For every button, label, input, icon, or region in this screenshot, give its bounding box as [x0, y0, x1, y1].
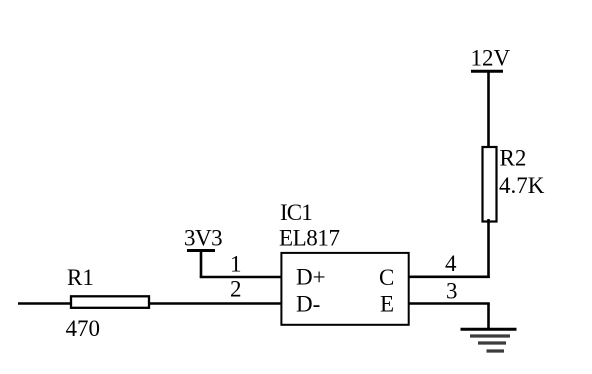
svg-text:C: C: [379, 265, 394, 290]
op-amp U1: optocoupler IC1 box: [281, 253, 408, 325]
wire: 3V3 to IC1 pin 1 (D+): [200, 276, 282, 279]
pin label D-: [296, 292, 320, 317]
pin 2 label: [230, 277, 242, 302]
wire: IC1 pin 4 (C) to R2 node: [409, 275, 490, 278]
wire: R2 down to pin 4 node: [487, 219, 490, 278]
wire: pin 3 node down to ground: [487, 304, 490, 331]
svg-text:EL817: EL817: [279, 226, 340, 251]
svg-text:IC1: IC1: [280, 200, 312, 225]
label R1: [67, 265, 94, 290]
power 12V supply bar: [471, 70, 503, 73]
svg-text:D-: D-: [296, 292, 320, 317]
pin 4 label: [445, 251, 457, 276]
label R2: [500, 146, 527, 171]
svg-text:D+: D+: [296, 265, 326, 290]
value 4.7K: [499, 173, 545, 198]
label EL817: [279, 226, 340, 251]
wire: IC1 pin 3 (E) to ground: [409, 302, 490, 305]
pin label E: [380, 292, 394, 317]
svg-text:12V: 12V: [471, 46, 511, 71]
svg-text:R2: R2: [500, 146, 527, 171]
pin 1 label: [230, 252, 242, 277]
resistor R2: [483, 147, 497, 222]
svg-text:2: 2: [230, 277, 242, 302]
wire: left lead into R1: [18, 302, 72, 305]
svg-text:1: 1: [230, 252, 242, 277]
svg-text:4.7K: 4.7K: [499, 173, 545, 198]
resistor R1: [71, 296, 149, 308]
power 3V3 supply bar: [187, 249, 215, 252]
label 12V: [471, 46, 511, 71]
svg-text:3V3: 3V3: [184, 226, 222, 251]
svg-text:3: 3: [446, 279, 458, 304]
ground: [461, 329, 517, 351]
pin label C: [379, 265, 394, 290]
svg-text:R1: R1: [67, 265, 94, 290]
svg-text:E: E: [380, 292, 394, 317]
wire: R1 to IC1 pin 2 (D-): [148, 302, 282, 305]
label 3V3: [184, 226, 222, 251]
label IC1: [280, 200, 312, 225]
pin 3 label: [446, 279, 458, 304]
wire: 12V down to R2: [487, 71, 490, 150]
value 470: [66, 316, 101, 341]
svg-text:4: 4: [445, 251, 457, 276]
pin label D+: [296, 265, 326, 290]
svg-text:470: 470: [66, 316, 101, 341]
wire: 3V3 down: [200, 251, 203, 278]
